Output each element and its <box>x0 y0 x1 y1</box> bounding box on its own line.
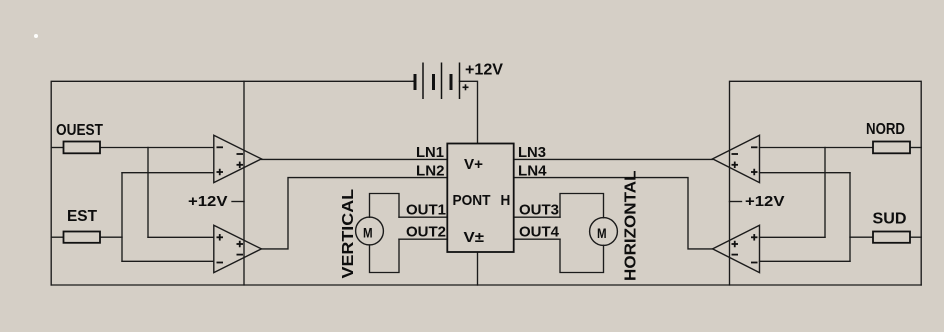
wire OUT4 <box>514 238 560 240</box>
resistor R1 OUEST <box>64 142 101 154</box>
wire LN4 to U4 output <box>514 178 713 249</box>
motor M1 <box>356 217 384 245</box>
resistor R4 SUD <box>873 232 910 243</box>
op-amp U3 <box>713 135 760 182</box>
battery polarity + mark <box>463 84 469 90</box>
wire bridge V- to ground rail <box>477 252 479 285</box>
node B vertical OUEST bus <box>147 148 149 238</box>
svg-text:VERTICAL: VERTICAL <box>340 189 357 279</box>
svg-text:M: M <box>363 225 373 240</box>
svg-text:LN3: LN3 <box>518 144 546 161</box>
wire SUD bus to U3 non-inverting input <box>760 172 851 174</box>
wire SUD resistor to rail <box>910 236 921 238</box>
wire battery positive to bridge V+ <box>460 81 478 143</box>
svg-text:OUT1: OUT1 <box>406 202 446 219</box>
svg-text:OUT3: OUT3 <box>519 202 559 219</box>
wire OUT2 <box>399 238 447 240</box>
svg-text:LN4: LN4 <box>518 163 547 180</box>
wire top rail left <box>51 81 413 285</box>
wire SUD bus to U4 inverting input <box>760 260 851 262</box>
svg-text:+12V: +12V <box>465 62 503 79</box>
svg-text:+12V: +12V <box>745 193 785 210</box>
svg-text:SUD: SUD <box>873 211 907 228</box>
op-amp U4 <box>713 225 760 272</box>
wire OUT1 <box>399 216 447 218</box>
svg-text:V+: V+ <box>464 156 483 173</box>
svg-text:OUT2: OUT2 <box>406 224 446 241</box>
wire OUEST to op-amp U1 inverting input <box>100 147 214 149</box>
resistor R2 EST <box>64 232 101 243</box>
wire motor M2 loop bottom <box>560 239 604 272</box>
svg-text:LN1: LN1 <box>416 144 444 161</box>
node A vertical EST bus <box>121 173 123 262</box>
wire bottom rail <box>51 284 921 286</box>
battery B1 +12V <box>415 63 460 100</box>
stray white dot top-left <box>34 34 38 38</box>
wire motor M2 loop top <box>560 194 604 218</box>
svg-text:NORD: NORD <box>866 121 905 138</box>
wire SUD to node D <box>850 236 873 238</box>
wire U1 output to LN1 <box>261 158 447 160</box>
op-amp U1 <box>214 135 262 182</box>
svg-text:OUEST: OUEST <box>56 122 103 139</box>
motor M2 <box>590 218 618 246</box>
node D vertical SUD bus <box>849 173 851 262</box>
svg-text:M: M <box>597 226 607 241</box>
svg-text:V±: V± <box>464 229 485 246</box>
wire right supply stub +12V <box>730 201 742 203</box>
wire LN3 to U3 output <box>514 158 713 160</box>
node C vertical NORD bus <box>824 148 826 238</box>
wire +12V stub left <box>232 201 244 203</box>
resistor R3 NORD <box>873 142 910 154</box>
wire battery feed <box>413 80 415 82</box>
svg-text:H: H <box>501 192 511 209</box>
wire motor M1 loop bottom <box>370 239 400 272</box>
svg-text:HORIZONTAL: HORIZONTAL <box>623 170 640 281</box>
op-amp U2 <box>214 225 262 272</box>
wire EST input <box>51 236 63 238</box>
svg-text:EST: EST <box>67 208 97 225</box>
wire EST to node A <box>100 236 122 238</box>
svg-text:OUT4: OUT4 <box>519 224 560 241</box>
wire OUEST bus to U2 non-inverting input <box>148 236 214 238</box>
wire U2 output to LN2 <box>261 178 447 249</box>
wire motor M1 loop top <box>370 194 400 218</box>
wire left supply vertical +12V <box>243 81 245 285</box>
svg-text:+12V: +12V <box>188 193 228 210</box>
wire OUT3 <box>514 216 560 218</box>
svg-text:LN2: LN2 <box>416 163 445 180</box>
wire NORD resistor to rail <box>910 147 921 149</box>
IC PONT H bridge <box>447 144 513 253</box>
wire EST bus to U1 non-inverting input <box>122 172 214 174</box>
wire top rail right <box>730 81 922 285</box>
wire EST bus to U2 inverting input <box>122 260 214 262</box>
wire NORD bus to U4 non-inverting input <box>760 236 826 238</box>
wire OUEST input <box>51 147 63 149</box>
svg-text:PONT: PONT <box>453 192 491 209</box>
wire U3 inverting input to NORD <box>760 147 874 149</box>
